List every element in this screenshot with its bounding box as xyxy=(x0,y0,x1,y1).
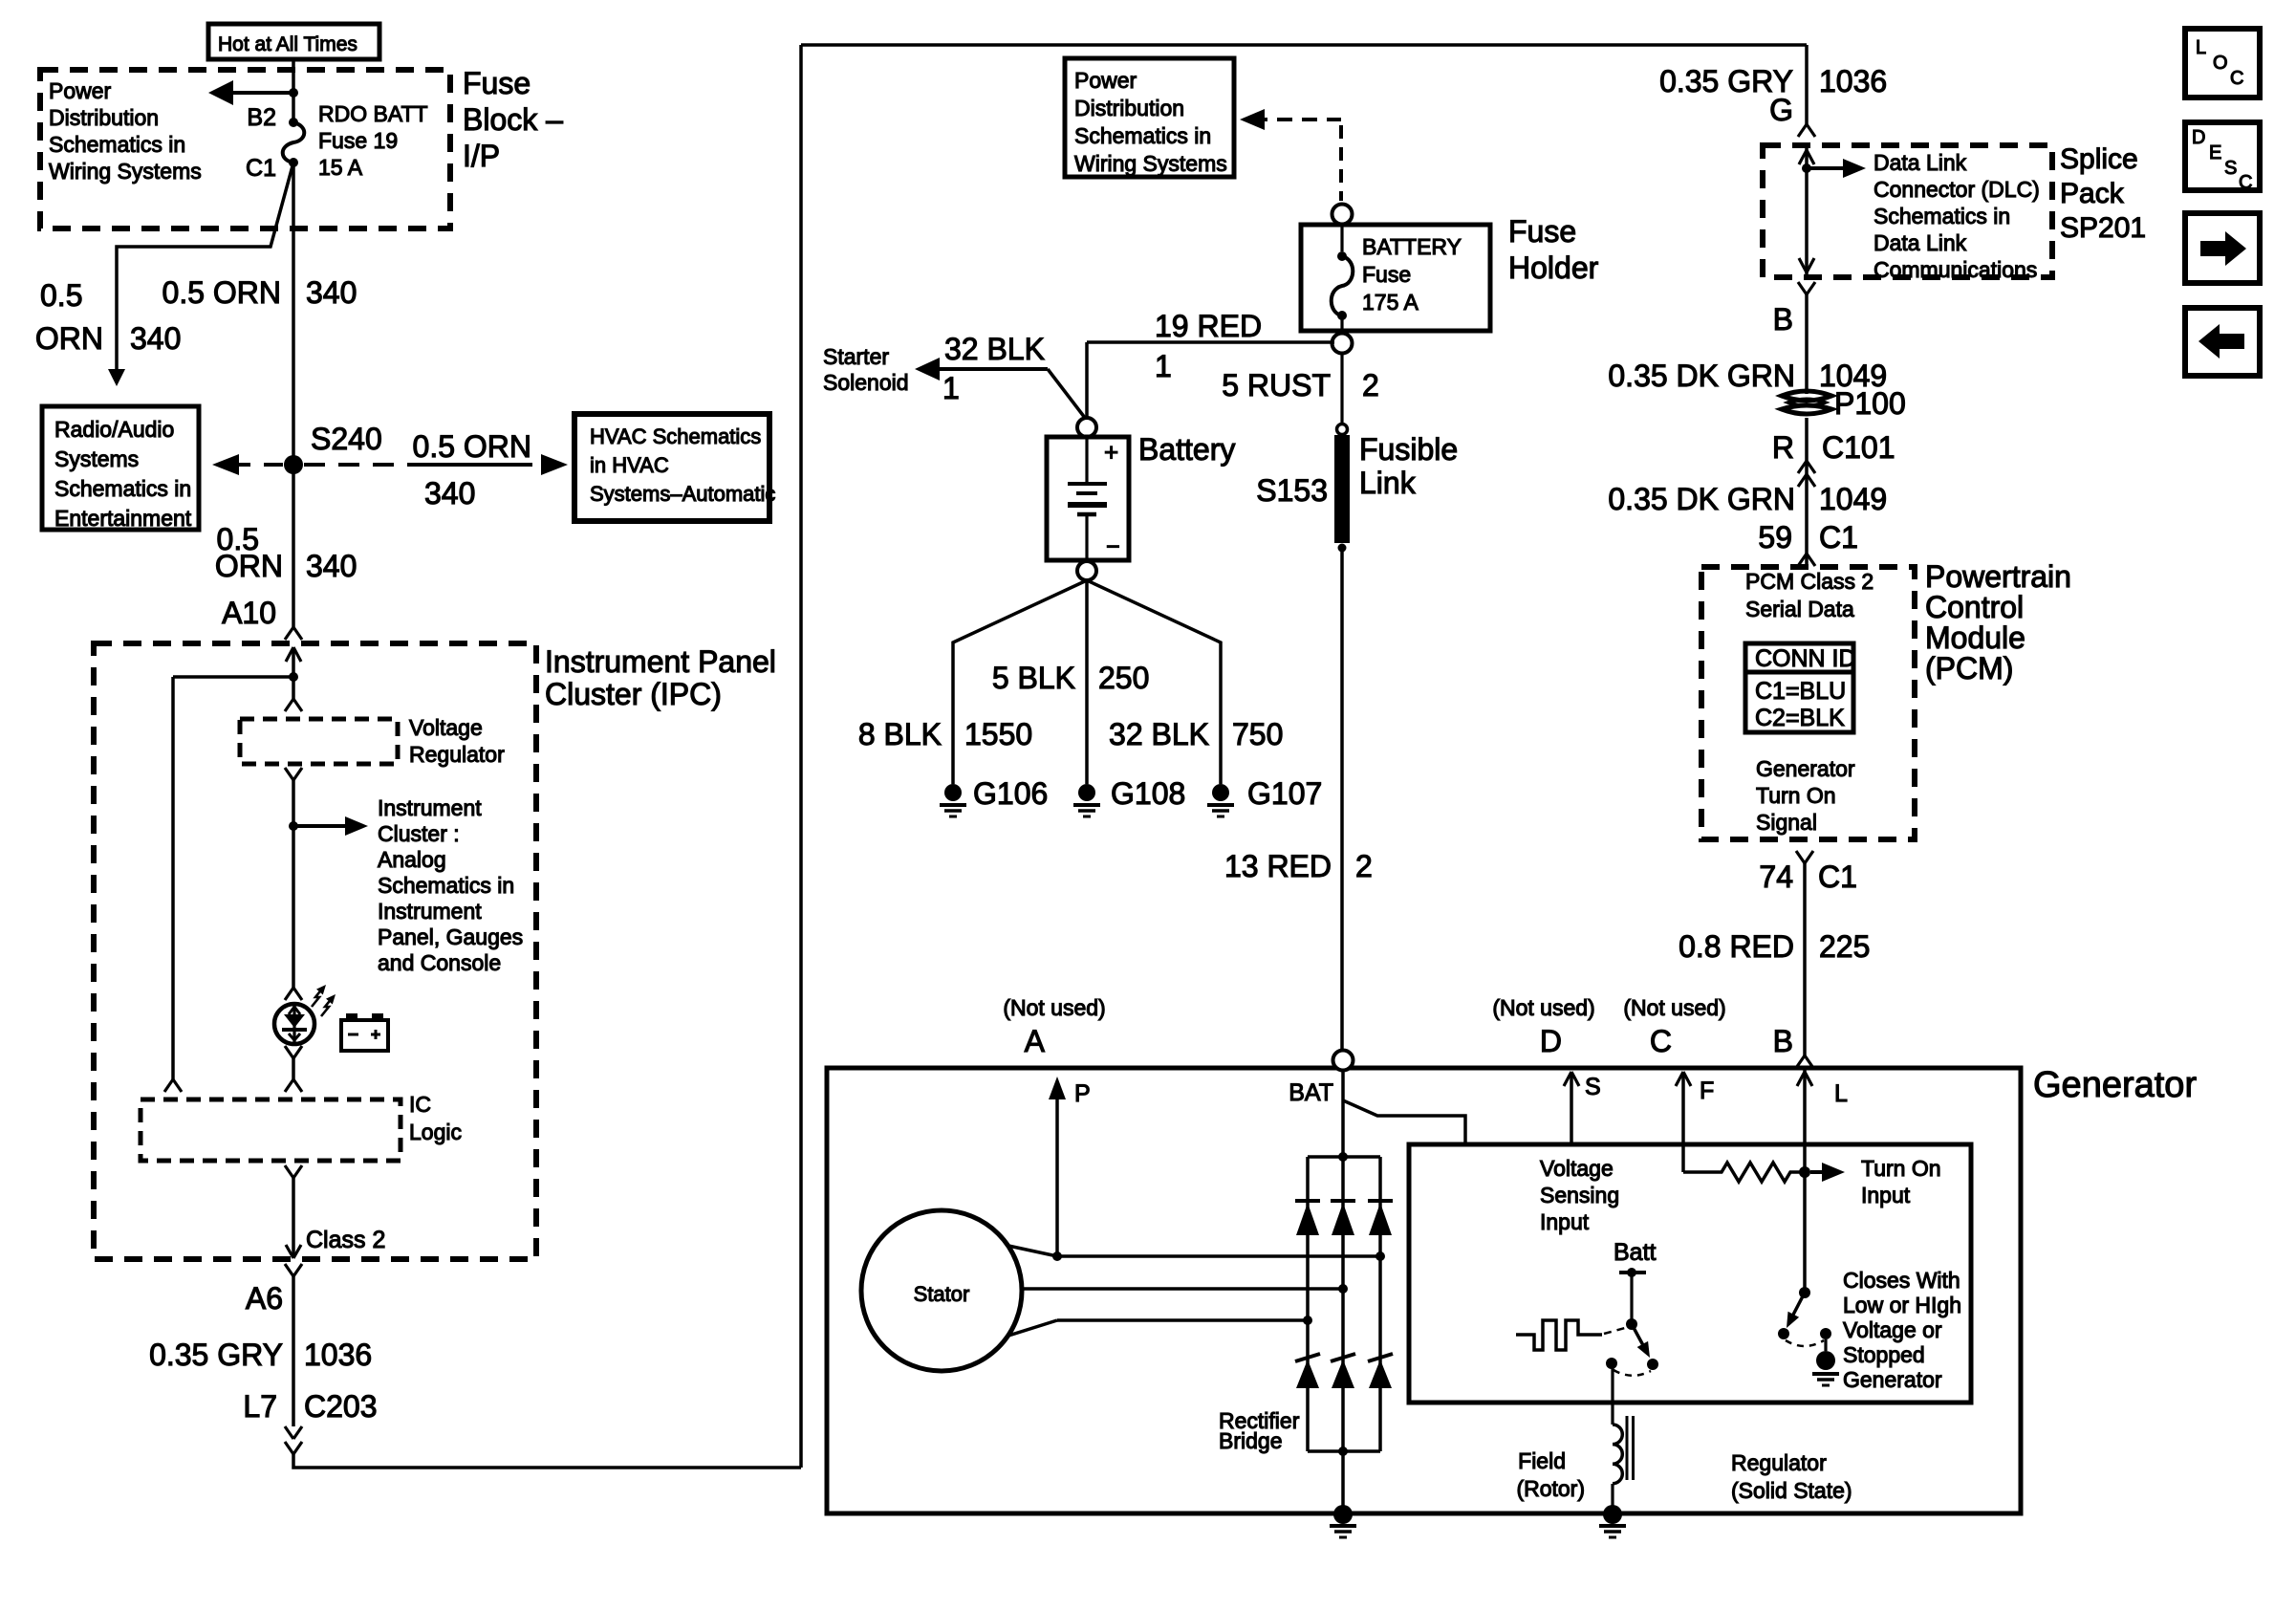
svg-text:RDO BATT: RDO BATT xyxy=(318,101,428,126)
svg-text:0.35 GRY: 0.35 GRY xyxy=(149,1338,283,1372)
svg-text:Wiring Systems: Wiring Systems xyxy=(1074,151,1227,176)
svg-text:Voltage or: Voltage or xyxy=(1843,1317,1942,1342)
svg-text:BAT: BAT xyxy=(1289,1079,1333,1106)
svg-text:Entertainment: Entertainment xyxy=(54,506,192,531)
svg-text:Batt: Batt xyxy=(1614,1239,1657,1266)
svg-text:Cluster :: Cluster : xyxy=(378,821,460,846)
svg-text:Turn On: Turn On xyxy=(1756,783,1836,808)
svg-text:13 RED: 13 RED xyxy=(1224,849,1332,883)
svg-text:Fuse: Fuse xyxy=(1362,262,1411,287)
svg-text:(Rotor): (Rotor) xyxy=(1516,1476,1585,1501)
svg-text:(Solid State): (Solid State) xyxy=(1731,1478,1852,1503)
svg-text:G106: G106 xyxy=(973,776,1048,811)
svg-text:Distribution: Distribution xyxy=(1074,96,1184,120)
svg-text:Instrument Panel: Instrument Panel xyxy=(545,644,776,679)
svg-text:B: B xyxy=(1773,302,1793,337)
svg-text:Voltage: Voltage xyxy=(1540,1156,1614,1181)
svg-text:Power: Power xyxy=(49,78,112,103)
svg-text:Schematics in: Schematics in xyxy=(1074,123,1211,148)
svg-text:Communications: Communications xyxy=(1874,257,2037,282)
svg-text:5 RUST: 5 RUST xyxy=(1222,368,1331,402)
svg-text:Fuse: Fuse xyxy=(1508,214,1576,249)
svg-text:(PCM): (PCM) xyxy=(1925,651,2013,685)
svg-text:Control: Control xyxy=(1925,590,2024,624)
svg-text:C: C xyxy=(2239,172,2252,193)
svg-text:Schematics in: Schematics in xyxy=(378,873,514,898)
svg-text:Generator: Generator xyxy=(1756,756,1855,781)
svg-text:0.8 RED: 0.8 RED xyxy=(1679,929,1794,964)
svg-text:0.5: 0.5 xyxy=(40,278,82,313)
svg-text:IC: IC xyxy=(409,1092,431,1117)
svg-text:SP201: SP201 xyxy=(2060,212,2146,244)
svg-text:L7: L7 xyxy=(243,1389,277,1424)
svg-text:Closes With: Closes With xyxy=(1843,1268,1960,1293)
svg-text:250: 250 xyxy=(1098,661,1149,695)
svg-text:B: B xyxy=(1773,1024,1793,1058)
svg-text:(Not used): (Not used) xyxy=(1003,995,1105,1020)
svg-text:Generator: Generator xyxy=(1843,1367,1942,1392)
svg-text:0.35 DK GRN: 0.35 DK GRN xyxy=(1608,482,1795,516)
svg-text:D: D xyxy=(2192,127,2205,148)
svg-text:Instrument: Instrument xyxy=(378,795,482,820)
svg-text:Serial Data: Serial Data xyxy=(1745,597,1854,621)
svg-text:59: 59 xyxy=(1758,520,1792,555)
svg-text:1550: 1550 xyxy=(964,717,1032,751)
svg-text:BATTERY: BATTERY xyxy=(1362,234,1462,259)
svg-text:P: P xyxy=(1074,1080,1091,1107)
svg-text:Class 2: Class 2 xyxy=(306,1227,385,1253)
svg-text:19 RED: 19 RED xyxy=(1155,309,1262,343)
svg-text:Stator: Stator xyxy=(914,1282,970,1306)
svg-text:A: A xyxy=(1025,1024,1046,1058)
svg-text:C101: C101 xyxy=(1822,430,1895,465)
svg-text:5 BLK: 5 BLK xyxy=(992,661,1075,695)
svg-text:1: 1 xyxy=(942,371,960,405)
svg-text:G107: G107 xyxy=(1247,776,1322,811)
svg-text:O: O xyxy=(2213,53,2228,74)
svg-text:L: L xyxy=(2196,37,2206,58)
svg-text:Fuse: Fuse xyxy=(463,66,531,100)
svg-text:225: 225 xyxy=(1819,929,1870,964)
svg-text:175 A: 175 A xyxy=(1362,290,1419,315)
svg-text:Stopped: Stopped xyxy=(1843,1342,1925,1367)
svg-text:P100: P100 xyxy=(1834,386,1906,421)
svg-text:2: 2 xyxy=(1355,849,1373,883)
svg-text:Schematics in: Schematics in xyxy=(49,132,185,157)
svg-text:Link: Link xyxy=(1359,466,1417,500)
svg-text:750: 750 xyxy=(1232,717,1283,751)
svg-text:(Not used): (Not used) xyxy=(1623,995,1725,1020)
svg-text:Wiring Systems: Wiring Systems xyxy=(49,159,202,184)
svg-text:74: 74 xyxy=(1759,859,1793,894)
svg-text:G: G xyxy=(1769,93,1793,127)
svg-text:Radio/Audio: Radio/Audio xyxy=(54,417,174,442)
svg-text:Turn On: Turn On xyxy=(1861,1156,1941,1181)
svg-text:R: R xyxy=(1772,430,1794,465)
svg-text:32 BLK: 32 BLK xyxy=(1109,717,1209,751)
svg-text:Sensing: Sensing xyxy=(1540,1183,1619,1207)
svg-text:1036: 1036 xyxy=(1819,64,1887,98)
svg-text:L: L xyxy=(1834,1080,1848,1107)
svg-text:PCM Class 2: PCM Class 2 xyxy=(1745,569,1874,594)
svg-text:C: C xyxy=(2230,68,2243,89)
svg-text:1036: 1036 xyxy=(304,1338,372,1372)
svg-text:Input: Input xyxy=(1861,1183,1911,1207)
svg-text:Module: Module xyxy=(1925,620,2025,655)
svg-text:Power: Power xyxy=(1074,68,1137,93)
svg-text:1049: 1049 xyxy=(1819,482,1887,516)
svg-text:Starter: Starter xyxy=(823,344,889,369)
svg-text:−: − xyxy=(1106,533,1120,560)
svg-text:S: S xyxy=(1585,1074,1601,1100)
svg-text:C203: C203 xyxy=(304,1389,378,1424)
svg-text:Systems: Systems xyxy=(54,446,139,471)
svg-text:Input: Input xyxy=(1540,1209,1590,1234)
svg-text:Block –: Block – xyxy=(463,102,563,137)
svg-text:Low or HIgh: Low or HIgh xyxy=(1843,1293,1961,1317)
svg-text:Regulator: Regulator xyxy=(409,742,505,767)
svg-text:E: E xyxy=(2209,142,2221,163)
svg-text:Solenoid: Solenoid xyxy=(823,370,909,395)
svg-text:0.35 DK GRN: 0.35 DK GRN xyxy=(1608,359,1795,393)
svg-text:0.5 ORN: 0.5 ORN xyxy=(413,429,531,464)
svg-text:Holder: Holder xyxy=(1508,250,1599,285)
svg-text:G108: G108 xyxy=(1111,776,1185,811)
svg-text:340: 340 xyxy=(130,321,181,356)
svg-text:Splice: Splice xyxy=(2060,143,2138,175)
svg-text:Analog: Analog xyxy=(378,847,446,872)
svg-text:15 A: 15 A xyxy=(318,155,363,180)
svg-text:C: C xyxy=(1650,1024,1672,1058)
svg-text:32 BLK: 32 BLK xyxy=(944,332,1045,366)
svg-text:Regulator: Regulator xyxy=(1731,1450,1827,1475)
svg-text:Battery: Battery xyxy=(1138,432,1235,467)
svg-text:B2: B2 xyxy=(247,104,276,131)
svg-text:Schematics in: Schematics in xyxy=(54,476,191,501)
svg-text:in HVAC: in HVAC xyxy=(590,453,669,477)
svg-text:ORN: ORN xyxy=(215,549,283,583)
svg-text:Pack: Pack xyxy=(2060,178,2125,209)
svg-text:Generator: Generator xyxy=(2033,1065,2197,1105)
svg-text:Signal: Signal xyxy=(1756,810,1817,835)
svg-text:C2=BLK: C2=BLK xyxy=(1755,705,1845,731)
svg-text:Field: Field xyxy=(1518,1448,1566,1473)
svg-text:8 BLK: 8 BLK xyxy=(858,717,942,751)
svg-text:Hot at All Times: Hot at All Times xyxy=(218,33,357,55)
svg-text:Schematics in: Schematics in xyxy=(1874,204,2010,228)
svg-text:D: D xyxy=(1540,1024,1562,1058)
svg-text:Instrument: Instrument xyxy=(378,899,482,924)
svg-text:I/P: I/P xyxy=(463,139,500,173)
svg-text:C1: C1 xyxy=(1818,859,1857,894)
svg-text:Fusible: Fusible xyxy=(1359,432,1458,467)
svg-text:S: S xyxy=(2224,158,2237,179)
svg-text:Cluster (IPC): Cluster (IPC) xyxy=(545,677,722,711)
svg-text:Panel, Gauges: Panel, Gauges xyxy=(378,925,523,949)
svg-text:Bridge: Bridge xyxy=(1219,1428,1282,1453)
svg-text:HVAC Schematics: HVAC Schematics xyxy=(590,424,761,448)
svg-text:340: 340 xyxy=(306,275,357,310)
svg-text:CONN ID: CONN ID xyxy=(1755,645,1856,672)
svg-text:Logic: Logic xyxy=(409,1120,462,1144)
svg-text:and Console: and Console xyxy=(378,950,501,975)
svg-text:S153: S153 xyxy=(1256,473,1328,508)
svg-text:Data Link: Data Link xyxy=(1874,150,1967,175)
svg-text:2: 2 xyxy=(1362,368,1379,402)
svg-text:Fuse 19: Fuse 19 xyxy=(318,128,398,153)
svg-text:A10: A10 xyxy=(222,596,276,630)
svg-text:340: 340 xyxy=(306,549,357,583)
svg-text:(Not used): (Not used) xyxy=(1492,995,1594,1020)
svg-text:+: + xyxy=(1104,438,1118,467)
svg-text:Connector (DLC): Connector (DLC) xyxy=(1874,177,2040,202)
svg-text:Voltage: Voltage xyxy=(409,715,483,740)
svg-text:Distribution: Distribution xyxy=(49,105,159,130)
svg-text:A6: A6 xyxy=(246,1281,283,1316)
svg-text:C1: C1 xyxy=(246,155,276,182)
svg-text:Powertrain: Powertrain xyxy=(1925,559,2071,594)
svg-text:S240: S240 xyxy=(311,422,382,456)
svg-text:340: 340 xyxy=(424,476,475,511)
svg-text:Data Link: Data Link xyxy=(1874,230,1967,255)
svg-text:C1: C1 xyxy=(1819,520,1858,555)
svg-text:1: 1 xyxy=(1155,349,1172,383)
svg-text:Systems–Automatic: Systems–Automatic xyxy=(590,482,775,506)
svg-text:ORN: ORN xyxy=(35,321,103,356)
svg-text:C1=BLU: C1=BLU xyxy=(1755,678,1846,705)
svg-text:F: F xyxy=(1700,1077,1714,1104)
svg-text:0.5 ORN: 0.5 ORN xyxy=(162,275,281,310)
